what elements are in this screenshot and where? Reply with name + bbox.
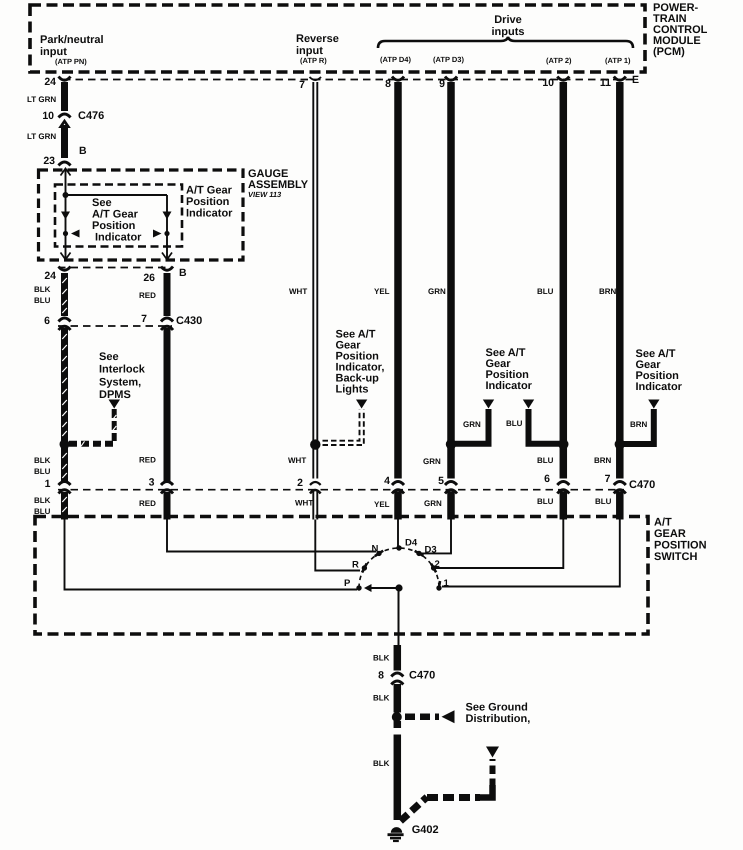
svg-text:VIEW 113: VIEW 113 bbox=[248, 190, 282, 199]
svg-text:Indicator: Indicator bbox=[95, 232, 142, 244]
connector C470 pin3 fork bbox=[161, 482, 173, 486]
svg-text:3: 3 bbox=[149, 477, 155, 489]
svg-text:2: 2 bbox=[435, 559, 440, 570]
svg-text:See Ground: See Ground bbox=[466, 702, 528, 714]
svg-text:GRN: GRN bbox=[424, 499, 442, 508]
svg-text:WHT: WHT bbox=[289, 287, 307, 296]
junction on WHT wire bbox=[310, 439, 320, 449]
svg-text:GRN: GRN bbox=[423, 457, 441, 466]
lamp arrow right bbox=[163, 212, 172, 220]
arrow toward right wire bbox=[153, 230, 162, 238]
pin 26 gauge fork bbox=[161, 267, 173, 271]
wire BRN upper bbox=[616, 82, 624, 479]
connector C470 pin6 fork bbox=[557, 482, 569, 486]
pin 8 terminal fork bbox=[392, 77, 404, 81]
switch common node bbox=[395, 584, 402, 591]
contact N bbox=[376, 551, 381, 556]
svg-text:LT GRN: LT GRN bbox=[27, 95, 56, 104]
interlock branch wire vertical bbox=[112, 409, 117, 441]
lamp arrow left bbox=[61, 212, 70, 220]
junction on BLU wire bbox=[558, 439, 568, 449]
wire to D3 contact bbox=[421, 520, 451, 554]
gauge connector row bbox=[58, 267, 172, 269]
wire BLK segment 2 bbox=[394, 684, 402, 713]
contact R bbox=[362, 565, 367, 570]
off-page branch to ground distribution (diagonal) bbox=[401, 797, 428, 821]
svg-text:G402: G402 bbox=[412, 824, 439, 836]
svg-text:Position: Position bbox=[186, 196, 230, 208]
wire BRN lower bbox=[616, 492, 624, 520]
node left lamp bbox=[63, 231, 68, 236]
svg-text:(ATP 1): (ATP 1) bbox=[605, 56, 631, 65]
wire to 2 contact bbox=[436, 520, 563, 569]
GRN branch wire bbox=[451, 409, 489, 444]
svg-text:Park/neutral: Park/neutral bbox=[40, 34, 104, 46]
svg-text:YEL: YEL bbox=[374, 287, 390, 296]
svg-text:GRN: GRN bbox=[463, 420, 481, 429]
svg-text:C430: C430 bbox=[176, 315, 202, 327]
wiper arm bbox=[371, 587, 396, 589]
wire BLK/BLU segment 1 bbox=[61, 273, 68, 316]
svg-text:BRN: BRN bbox=[630, 420, 648, 429]
wire YEL lower bbox=[394, 492, 402, 520]
wire GRN lower bbox=[447, 492, 455, 520]
contact D4 bbox=[396, 545, 401, 550]
svg-text:D3: D3 bbox=[425, 545, 437, 556]
svg-text:(ATP D4): (ATP D4) bbox=[380, 55, 411, 64]
connector C470 pin7 fork bbox=[614, 482, 626, 486]
wire (top link) bbox=[66, 194, 168, 196]
connector C470 pin2 fork bbox=[310, 482, 321, 485]
connector C430 right dome bbox=[161, 326, 173, 330]
svg-text:BLU: BLU bbox=[595, 497, 612, 506]
svg-text:BLU: BLU bbox=[537, 497, 554, 506]
svg-text:Lights: Lights bbox=[336, 384, 369, 396]
junction node bbox=[63, 192, 69, 198]
wire BLK segment 3 bbox=[394, 721, 402, 728]
exit arrow left bbox=[61, 253, 71, 260]
svg-text:YEL: YEL bbox=[374, 500, 390, 509]
off-page branch horizontal bbox=[427, 794, 480, 801]
connector C470 pin5 dome bbox=[445, 490, 457, 494]
svg-text:D4: D4 bbox=[405, 538, 418, 549]
svg-text:SWITCH: SWITCH bbox=[654, 551, 697, 563]
junction on BRN wire bbox=[615, 439, 625, 449]
svg-text:8: 8 bbox=[378, 670, 384, 682]
svg-text:2: 2 bbox=[297, 477, 303, 489]
exit arrow right bbox=[162, 253, 172, 260]
wire LT GRN lower bbox=[61, 125, 68, 158]
connector C470 pin8 dome bbox=[391, 681, 403, 685]
svg-text:26: 26 bbox=[143, 272, 155, 284]
ground G402 symbol bbox=[391, 827, 402, 833]
svg-text:A/T Gear: A/T Gear bbox=[92, 209, 139, 221]
svg-text:Distribution,: Distribution, bbox=[466, 713, 531, 725]
svg-text:Position: Position bbox=[92, 220, 136, 232]
svg-text:POSITION: POSITION bbox=[654, 540, 707, 552]
svg-text:10: 10 bbox=[542, 77, 554, 89]
junction to ground distribution bbox=[392, 712, 402, 722]
contact D3 bbox=[416, 551, 421, 556]
svg-text:10: 10 bbox=[42, 110, 54, 122]
entry arrow into gauge assembly bbox=[61, 169, 71, 176]
svg-text:1: 1 bbox=[45, 478, 51, 490]
pin 24 gauge fork bbox=[59, 267, 71, 271]
svg-text:Indicator: Indicator bbox=[486, 380, 533, 392]
wire to 1 contact bbox=[442, 520, 620, 587]
connector C476 lower chevron bbox=[58, 119, 71, 128]
wire to R contact bbox=[315, 520, 360, 571]
connector C470 pin1 dome bbox=[59, 490, 71, 494]
svg-text:BRN: BRN bbox=[599, 287, 617, 296]
junction on GRN wire bbox=[446, 439, 456, 449]
wire LT GRN upper bbox=[61, 82, 68, 111]
wire YEL upper bbox=[394, 82, 402, 479]
svg-text:23: 23 bbox=[43, 155, 55, 167]
svg-text:BLK: BLK bbox=[34, 285, 51, 294]
wire RED segment 2 bbox=[164, 328, 171, 481]
svg-text:RED: RED bbox=[139, 499, 156, 508]
svg-text:B: B bbox=[179, 267, 187, 279]
svg-text:inputs: inputs bbox=[492, 26, 525, 38]
svg-text:N: N bbox=[372, 544, 379, 555]
svg-text:24: 24 bbox=[44, 76, 56, 88]
pin 24 terminal fork bbox=[59, 77, 71, 81]
PCM connector row line (pins 24..E) bbox=[63, 79, 634, 81]
wire (gauge right branch) bbox=[166, 195, 168, 259]
connector C470 pin1 fork bbox=[59, 482, 71, 486]
contact 2 bbox=[431, 565, 436, 570]
svg-text:RED: RED bbox=[139, 456, 156, 465]
wire BLK/BLU segment 2 bbox=[61, 328, 68, 481]
pin 10 terminal fork bbox=[557, 77, 569, 81]
svg-text:Indicator: Indicator bbox=[186, 208, 233, 220]
wire GRN upper bbox=[447, 82, 455, 479]
svg-text:WHT: WHT bbox=[288, 456, 306, 465]
arrow toward left wire bbox=[71, 230, 80, 238]
connector C470 pin6 dome bbox=[557, 490, 569, 494]
svg-text:See: See bbox=[99, 351, 119, 363]
svg-text:BLK: BLK bbox=[373, 694, 390, 703]
svg-text:4: 4 bbox=[384, 475, 390, 487]
contact P bbox=[356, 585, 361, 590]
svg-text:BLK: BLK bbox=[373, 654, 390, 663]
svg-text:R: R bbox=[352, 560, 359, 571]
wire WHT lower bbox=[313, 492, 317, 520]
ground distribution arrow bbox=[442, 710, 455, 723]
svg-text:Indicator: Indicator bbox=[636, 381, 683, 393]
node right lamp bbox=[164, 231, 169, 236]
svg-text:LT GRN: LT GRN bbox=[27, 132, 56, 141]
svg-text:Interlock: Interlock bbox=[99, 364, 146, 376]
svg-text:1: 1 bbox=[444, 578, 450, 589]
svg-text:A/T: A/T bbox=[654, 517, 672, 529]
svg-text:C476: C476 bbox=[78, 110, 104, 122]
common wire (thin) bbox=[398, 588, 400, 645]
svg-text:GRN: GRN bbox=[428, 287, 446, 296]
svg-text:9: 9 bbox=[439, 78, 445, 90]
svg-text:(ATP 2): (ATP 2) bbox=[546, 56, 572, 65]
svg-text:C470: C470 bbox=[409, 670, 435, 682]
wire BLU lower bbox=[560, 492, 568, 520]
svg-text:A/T Gear: A/T Gear bbox=[186, 185, 233, 197]
off-page branch vertical bbox=[490, 759, 496, 787]
wire (gauge left branch) bbox=[65, 169, 67, 259]
svg-text:C470: C470 bbox=[629, 479, 655, 491]
svg-text:(PCM): (PCM) bbox=[653, 46, 685, 58]
wire to D4 contact bbox=[397, 520, 399, 550]
svg-text:5: 5 bbox=[438, 475, 444, 487]
svg-text:System,: System, bbox=[99, 377, 141, 389]
connector C470 pin2 dome bbox=[310, 490, 321, 494]
pin 11 terminal fork bbox=[614, 77, 626, 81]
gauge assembly box bbox=[39, 170, 244, 260]
svg-text:GEAR: GEAR bbox=[654, 528, 686, 540]
stripe marks on BLK/BLU wire bbox=[62, 278, 67, 512]
svg-text:BLU: BLU bbox=[34, 507, 51, 516]
svg-text:(ATP D3): (ATP D3) bbox=[433, 55, 464, 64]
connector C470 pin8 fork bbox=[391, 673, 403, 677]
svg-text:(ATP PN): (ATP PN) bbox=[55, 57, 87, 66]
WHT branch wire (double dashed) bbox=[323, 410, 364, 446]
connector C470 pin4 dome bbox=[392, 490, 404, 494]
svg-text:Reverse: Reverse bbox=[296, 33, 339, 45]
GRN branch arrow bbox=[483, 400, 494, 409]
connector C470 pin5 fork bbox=[445, 482, 457, 486]
connector C476 upper fork bbox=[59, 114, 71, 118]
svg-text:BLK: BLK bbox=[34, 496, 51, 505]
svg-text:(ATP R): (ATP R) bbox=[300, 56, 327, 65]
svg-text:7: 7 bbox=[141, 313, 147, 325]
svg-text:8: 8 bbox=[385, 78, 391, 90]
svg-text:E: E bbox=[632, 74, 639, 86]
svg-text:11: 11 bbox=[600, 77, 611, 89]
wire BLU upper bbox=[560, 82, 568, 479]
svg-text:WHT: WHT bbox=[295, 499, 313, 508]
connector C470 pin3 dome bbox=[161, 490, 173, 494]
svg-text:Drive: Drive bbox=[494, 14, 522, 26]
wire RED segment 1 bbox=[164, 273, 171, 316]
svg-text:See: See bbox=[92, 197, 112, 209]
wire BLK segment 1 bbox=[394, 645, 402, 671]
svg-text:DPMS: DPMS bbox=[99, 389, 131, 401]
svg-text:RED: RED bbox=[139, 291, 156, 300]
connector C470 row line bbox=[58, 489, 624, 491]
connector C470 pin7 dome bbox=[614, 490, 626, 494]
PCM module box bbox=[30, 5, 645, 72]
interlock branch arrow bbox=[109, 400, 121, 409]
ground distribution branch wire bbox=[405, 714, 439, 721]
connector C430 right fork bbox=[161, 318, 173, 322]
BRN branch arrow bbox=[648, 400, 659, 409]
wire BLK/BLU segment 3 bbox=[61, 492, 68, 520]
WHT branch arrow bbox=[356, 400, 367, 409]
svg-text:BLU: BLU bbox=[506, 419, 523, 428]
BRN branch wire bbox=[620, 409, 654, 444]
connector C470 pin4 fork bbox=[392, 482, 404, 486]
connector C430 left fork bbox=[59, 318, 71, 322]
stripe marks on interlock branch bbox=[81, 415, 116, 446]
pin 9 terminal fork bbox=[445, 77, 457, 81]
BLU branch arrow bbox=[523, 400, 534, 409]
svg-text:BLU: BLU bbox=[537, 287, 554, 296]
A/T gear position indicator box bbox=[55, 185, 182, 247]
svg-text:BLK: BLK bbox=[373, 759, 390, 768]
connector C430 row bbox=[58, 325, 172, 327]
svg-text:6: 6 bbox=[544, 473, 550, 485]
junction on BLK/BLU wire bbox=[60, 439, 70, 449]
rotary switch arc bbox=[359, 548, 439, 588]
wire to P contact bbox=[65, 520, 358, 590]
contact 1 bbox=[436, 585, 441, 590]
pin 7 terminal fork bbox=[310, 77, 322, 80]
svg-text:P: P bbox=[344, 578, 351, 589]
brace over drive inputs bbox=[378, 37, 633, 48]
svg-text:6: 6 bbox=[44, 315, 50, 327]
pin 23 terminal fork bbox=[59, 162, 71, 166]
BLU branch wire bbox=[529, 409, 564, 444]
A/T gear position switch box bbox=[35, 517, 648, 635]
svg-text:7: 7 bbox=[605, 473, 611, 485]
wire to N contact bbox=[167, 520, 376, 552]
wire WHT (double line) upper bbox=[313, 82, 317, 479]
svg-text:BLK: BLK bbox=[34, 456, 51, 465]
wire RED segment 3 bbox=[164, 492, 171, 520]
connector C430 left dome bbox=[59, 326, 71, 330]
interlock branch wire horizontal bbox=[69, 441, 116, 447]
off-page arrow bbox=[486, 747, 499, 758]
svg-text:BRN: BRN bbox=[594, 456, 612, 465]
svg-text:BLU: BLU bbox=[34, 467, 51, 476]
svg-text:BLU: BLU bbox=[537, 456, 554, 465]
svg-text:BLU: BLU bbox=[34, 296, 51, 305]
svg-text:24: 24 bbox=[44, 270, 56, 282]
svg-text:7: 7 bbox=[299, 79, 305, 91]
svg-text:B: B bbox=[79, 145, 87, 157]
